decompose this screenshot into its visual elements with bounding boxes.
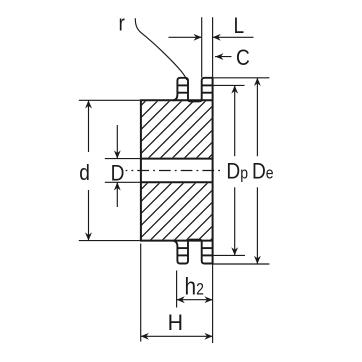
top teeth pitch line Dp band [177,84,212,86]
L dimension line right part [213,36,254,38]
D extension line bottom (bore) [105,181,141,183]
D top arrowhead [114,150,121,158]
H dimension line [141,335,213,337]
top teeth root line band [177,92,212,94]
svg-text:C: C [236,46,250,71]
thin dimension / extension lines [79,17,270,343]
svg-text:d: d [79,161,90,186]
arrowheads [85,34,261,340]
D bottom arrowhead [114,182,121,190]
Dp top extension line [213,84,245,86]
bottom right tooth [199,240,212,264]
C arrowhead [215,53,223,60]
d dimension line upper [88,100,90,152]
d bottom arrowhead [85,232,92,240]
svg-text:D: D [111,161,125,186]
hub left face [140,100,142,240]
De top arrowhead [254,78,261,86]
D extension line top (bore) [105,158,141,160]
svg-text:r: r [119,11,125,36]
bottom left tooth [173,240,191,264]
bore bottom line [141,181,213,183]
L dimension line left part [169,36,202,38]
centerline dash-dot [126,170,224,172]
Dp bottom arrowhead [231,247,238,255]
r leader line [135,18,187,80]
h2 left arrowhead [177,296,185,303]
H extension line left [140,244,142,342]
hub bottom surface [140,240,213,242]
h2 right arrowhead [204,296,212,303]
d extension line bottom [79,240,140,242]
H right arrowhead [204,333,212,340]
De bottom arrowhead [254,256,261,264]
body right face [212,78,214,264]
hatch lower body section [1,94,357,246]
De bottom extension line [213,263,270,265]
hatch upper body section [1,94,357,246]
De top extension line [213,77,270,79]
top right tooth [199,78,212,102]
h2 dimension line [177,299,213,301]
bottom tooth channel ceiling [191,239,200,241]
d top arrowhead [85,100,92,108]
bottom teeth root line band [177,247,212,249]
D dimension line lower [116,182,118,207]
bottom teeth pitch line Dp band [177,254,212,256]
D dimension line upper [116,125,118,159]
L extension line left [201,17,203,77]
C leader line [215,56,232,58]
d extension line top [79,99,140,101]
hub top surface [140,99,213,101]
L left arrowhead [194,34,202,41]
L extension line right [212,17,214,77]
L right arrowhead [213,34,221,41]
svg-text:L: L [234,13,245,38]
Dp bottom extension line [213,254,245,256]
d dimension line lower [88,190,90,241]
svg-text:H: H [168,310,183,336]
De dimension line lower [256,187,258,264]
h2 extension line [176,271,178,308]
De dimension line upper [256,78,258,156]
body right face extension line (lower) [212,264,214,344]
H left arrowhead [141,333,149,340]
hub body outline [140,78,213,264]
Dp dimension line upper [234,85,236,156]
bore top line [141,158,213,160]
Dp top arrowhead [231,85,238,93]
Dp dimension line lower [234,187,236,255]
top left tooth [173,78,191,102]
top tooth channel bottom [191,100,200,102]
